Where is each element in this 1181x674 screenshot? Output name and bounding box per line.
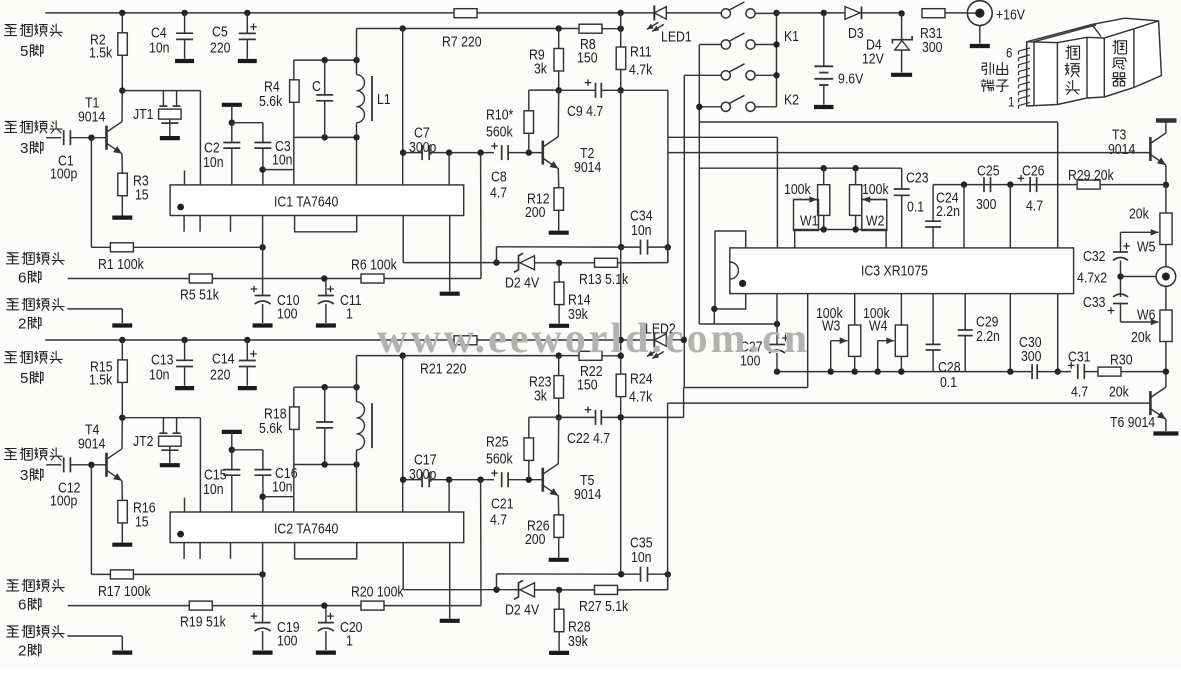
IC stub pin [183,216,185,232]
wire to IC2 pin [199,418,201,512]
wire x668 lower vertical [667,403,669,590]
wire IC3 pin1010 [1009,185,1011,248]
svg-text:W3: W3 [822,317,841,333]
wire to IC1 pin [199,91,201,185]
zener D4 12V [901,13,903,39]
svg-text:www.eeworld.com.cn: www.eeworld.com.cn [377,316,810,362]
resistor R19 51k [189,601,212,610]
svg-text:C4: C4 [151,24,167,40]
node C35 right [665,571,671,577]
svg-text:5: 5 [20,43,28,60]
svg-text:C13: C13 [151,351,174,367]
wire to tank bottom-left [263,496,294,498]
wire stub to C34 row [496,247,498,263]
svg-text:R25: R25 [486,433,509,449]
node R17/C19 [259,571,265,577]
IC stub pin top [184,498,186,512]
3D box front top edge [1027,29,1134,43]
node base/R1 [88,135,94,141]
svg-text:T6 9014: T6 9014 [1110,414,1155,430]
svg-text:10n: 10n [203,481,224,497]
wire bus to C14 [246,340,248,361]
svg-text:6: 6 [1006,44,1012,60]
svg-text:10n: 10n [631,549,652,565]
potentiometer W3 100k [854,294,856,325]
resistor R2 1.5k [118,33,128,56]
resistor R4 5.6k [290,80,300,103]
resistor R22 150 [579,351,602,360]
crystal JT2 [162,418,164,434]
wire bus to K row1 [666,12,721,14]
ground under R28 [549,651,569,655]
resistor R15 1.5k [118,360,128,383]
node C30/x1058 [1055,368,1061,374]
wire R10 top [528,90,530,111]
diode D3 [845,7,860,20]
svg-text:R7 220: R7 220 [442,33,482,49]
ground under R14 [549,324,569,328]
svg-text:5: 5 [20,370,28,387]
node row/IC3 pin964 [961,181,967,187]
wire collector up [121,91,123,122]
wire IC pin403 down [402,216,404,263]
wire R27 row to riser [618,589,668,591]
node bus/W1 [821,165,827,171]
ground pin2 [112,650,132,654]
svg-text:C28: C28 [938,359,961,375]
svg-text:4.7k: 4.7k [629,61,652,77]
wire W5 to jack [1165,245,1167,267]
wire bus to C4 [184,13,186,33]
wire T collector up [557,90,559,137]
svg-text:100: 100 [277,305,298,321]
node C27/IC3 pin [774,321,780,327]
svg-text:5.6k: 5.6k [259,93,282,109]
wire C33 to W6 wiper [1120,304,1122,323]
wire tank bottom [294,464,357,466]
inductor core bar [371,76,373,121]
svg-text:C14: C14 [212,350,235,366]
node T2 base [526,149,532,155]
node R22/x621 [618,353,624,359]
wire to C20 [325,606,327,623]
svg-text:R11: R11 [630,43,652,59]
svg-text:200: 200 [525,531,546,547]
wire W1/W2 top bus [699,167,901,169]
resistor R13 5.1k [595,258,618,267]
node bus/C27 [774,368,780,374]
label 端子 [982,80,994,92]
wire input pin3 to C12 [46,464,61,466]
wire row1 right [755,12,776,14]
resistor R24 4.7k [616,374,626,397]
ground under C5 [238,59,257,63]
resistor R18 5.6k [290,407,300,430]
capacitor C30 300 [1031,364,1033,379]
svg-text:100k: 100k [862,181,889,197]
svg-text:C33: C33 [1083,294,1106,310]
wire C7row to IC pin [448,153,450,185]
wire x403 to IC [402,356,404,512]
node bus2/W2 [852,226,858,232]
wire IC3 pin808 route [807,294,809,388]
svg-text:+16V: +16V [996,6,1026,22]
wire riser to C34 [667,247,669,262]
node R8/x621 [618,26,624,32]
node R27/R28 [556,587,562,593]
node bus/pin1010 [1007,368,1013,374]
node C32/C33 mid [1117,273,1123,279]
capacitor C28 0.1 [932,294,934,345]
wire bus to R15 [121,340,123,360]
svg-text:1: 1 [346,632,353,648]
node T2 collector [556,87,562,93]
svg-text:20k: 20k [1129,205,1149,221]
ground under R3 [112,216,132,220]
switch K2 row3 [721,71,730,80]
wire switch left rail down [698,45,700,325]
node rail/bus [773,10,779,16]
capacitor C23 0.1 [894,188,910,190]
wire jack to W6 [1165,286,1167,310]
node T6 collector [1163,368,1169,374]
ground under C19 [253,650,273,654]
node C15 top [229,447,235,453]
svg-text:560k: 560k [486,123,513,139]
label 调频头 (3D box) [1066,46,1080,60]
shield box around IC3 left end [715,231,746,309]
svg-text:2.2n: 2.2n [936,203,960,219]
svg-text:R10*: R10* [486,106,514,122]
label 至调频头 [5,449,17,460]
svg-text:R17 100k: R17 100k [98,583,151,599]
wire pin6 row [68,605,190,607]
wire bus to R2 [121,13,123,33]
wire C9 row to riser [621,89,668,91]
wire bus to C5 [246,13,248,34]
switch K2 row4 [721,102,730,111]
resistor R6 100k [361,274,384,283]
wire C34 row [497,246,622,248]
resistor R3 15 [118,173,128,196]
svg-text:IC3 XR1075: IC3 XR1075 [861,262,928,278]
svg-text:300p: 300p [409,466,437,482]
svg-text:4.7: 4.7 [1026,197,1043,213]
wiper arrow W5 [1121,231,1159,233]
capacitor C24 2.2n [932,185,934,222]
wire tank top [294,386,357,388]
svg-text:150: 150 [577,376,598,392]
svg-text:10n: 10n [203,154,224,170]
IC stub pin [230,543,232,559]
IC pin1 dot [177,204,184,211]
node C7 left [400,149,406,155]
svg-text:220: 220 [210,366,231,382]
node bus/C5 [244,10,250,16]
capacitor C15 10n [223,469,240,471]
wire y137 to IC3 pin [668,136,778,138]
wire pin6 row [68,278,190,280]
node row/IC3 pin1010 [1007,181,1013,187]
resistor R26 200 [554,515,564,538]
node R24/C22 [618,414,624,420]
wire T3 collector to rail [1165,122,1167,133]
svg-text:4.7: 4.7 [1071,383,1088,399]
node C7row/IC pin449 [446,149,452,155]
svg-text:W6: W6 [1137,306,1156,322]
wire tank to IC pin [356,465,358,513]
ground under R16 [112,543,132,547]
wire emitter down [121,481,123,501]
capacitor C tank ch2 [324,387,326,422]
node bus/C13 [181,337,187,343]
wire collector row [122,90,200,92]
IC stub pin top [184,171,186,185]
svg-text:200: 200 [525,204,546,220]
label 至调频头 [5,352,17,363]
label 至调频头 [7,299,19,310]
svg-text:D2 4V: D2 4V [505,274,540,290]
svg-text:20k: 20k [1131,329,1151,345]
op-amp IC2 TA7640 [170,512,464,543]
node T4 collector [119,415,125,421]
wire bus to LED [477,339,654,341]
ground above C2 [222,103,242,107]
wire row4 left [699,106,721,108]
node row28/R23 [556,352,562,358]
wire W bus2 staple [795,230,886,248]
node base/R17 [88,462,94,468]
wire R10 bottom [528,133,530,152]
wire tank to IC pin [356,137,358,185]
wire IC3 pin1010 to bus [1009,294,1011,372]
IC pin1 dot [177,531,184,538]
wire T emitter down [557,168,559,188]
svg-text:W4: W4 [869,317,888,333]
crystal JT1 [162,91,164,107]
wire T emitter down [557,495,559,515]
svg-text:3: 3 [20,467,28,484]
capacitor C27 100 [776,324,778,345]
resistor R1 100k [110,243,133,252]
svg-text:15: 15 [135,513,149,529]
label 调感器 (3D box) [1113,40,1127,54]
svg-text:JT1: JT1 [133,106,153,122]
resistor R8 150 [579,24,602,33]
svg-text:150: 150 [577,49,598,65]
wire IC3 pin777 top [776,137,778,248]
node row28/IC riser [400,25,406,31]
wire R6 riser [480,153,482,279]
node zener row left [493,259,499,265]
label 至调频头 [7,253,19,264]
label 至调频头 [5,121,17,132]
potentiometer W2 100k [855,168,857,185]
inductor core bar [371,403,373,448]
svg-text:1.5k: 1.5k [89,371,112,387]
svg-text:4.7: 4.7 [490,511,507,527]
op-amp IC3 XR1075 [730,248,1074,294]
IC stub pin [183,543,185,559]
capacitor C35 10n [640,567,642,582]
resistor R12 200 [554,188,564,211]
wire T3 base line [668,152,1151,154]
svg-text:2: 2 [18,643,26,660]
label 至调频头 [5,25,17,36]
node C3 bottom [259,166,265,172]
wire C35 row [497,573,622,575]
svg-text:1: 1 [346,305,353,321]
wire IC pin449 to ground [449,543,451,619]
wire D3 to D4 [860,12,902,14]
capacitor C2 10n [223,142,240,144]
wire to C3 top [232,122,263,124]
transistor T6 9014 [1149,391,1152,415]
capacitor C22 4.7 [595,410,597,425]
svg-text:4.7x2: 4.7x2 [1077,269,1107,285]
wire emitter down [121,154,123,174]
resistor R31 300 [922,9,945,18]
svg-text:9014: 9014 [78,108,106,124]
svg-text:4.7: 4.7 [490,184,507,200]
wire mid to jack [1121,276,1157,278]
wire x621 to lower bus [620,247,622,340]
svg-text:C26: C26 [1022,162,1045,178]
transistor T3 9014 [1149,137,1152,161]
switch K1 row2 [721,40,730,49]
resistor R21 220 [454,336,477,345]
capacitor C10 100 [255,295,271,297]
wire tank-top riser [356,29,358,61]
ground under C4 [175,59,194,63]
wire row28 [357,28,580,30]
svg-text:C8: C8 [491,168,507,184]
capacitor C12 100p [63,457,65,472]
IC stub pin [199,216,201,232]
node C7row/IC pin449 [446,477,452,483]
wire IC bottom staple [295,216,357,232]
resistor R9 3k [554,49,564,72]
capacitor C31 4.7 [1077,364,1079,379]
ground under R26 [549,558,569,562]
svg-text:R29 20k: R29 20k [1068,167,1114,183]
svg-text:JT2: JT2 [133,433,153,449]
ground under C14 [238,386,257,390]
svg-text:560k: 560k [486,450,513,466]
wire collector up [121,418,123,449]
capacitor C33 4.7 [1113,294,1128,297]
terminal +16V [967,1,992,26]
wire base down to R1 [90,138,92,248]
resistor R5 51k [189,274,212,283]
svg-text:C21: C21 [491,495,514,511]
node bus/R15 [119,337,125,343]
svg-text:20k: 20k [1109,383,1129,399]
svg-text:6: 6 [18,270,26,287]
capacitor C5 220 [239,32,256,34]
wire switch right rail [776,13,778,107]
node R13/R14 [556,260,562,266]
svg-text:C22 4.7: C22 4.7 [567,430,610,446]
wire IC3 bottom bus [777,371,1032,373]
node bus/battery [821,10,827,16]
capacitor C9 4.7 [595,83,597,98]
svg-text:100k: 100k [784,181,811,197]
resistor R27 5.1k [595,585,618,594]
ground under C11 [316,323,336,327]
wiper arrow W6 [1121,321,1159,323]
zener D2 4V ch2 [520,583,535,597]
svg-text:100p: 100p [50,165,78,181]
resistor R30 20k [1098,367,1121,376]
wire row3 right [755,74,776,76]
wire bus to battery [777,12,824,14]
resistor R17 100k [110,570,133,579]
ground under C10 [253,323,273,327]
node C17 left [400,477,406,483]
node C35/x621 [618,571,624,577]
wire row3 drop to lower channel [683,75,685,387]
svg-text:C23: C23 [906,169,929,185]
node T1 collector [119,87,125,93]
3D box roof valley [1092,25,1101,37]
svg-text:D2 4V: D2 4V [505,601,540,617]
svg-text:R6 100k: R6 100k [351,256,397,272]
capacitor C26 4.7 [1029,177,1031,192]
wire IC pin to C19 [262,543,264,623]
capacitor C14 220 [239,360,256,362]
svg-text:R30: R30 [1110,351,1133,367]
node C34/x621 [618,244,624,250]
ground IC pin449 [440,619,460,623]
capacitor C17 300p [421,472,423,487]
IC3 pin1 dot [739,280,746,287]
wire to D3 [824,12,845,14]
wire IC3 pin964 [963,185,965,248]
wire IC pin to C10 [262,216,264,296]
resistor R23 3k [554,376,564,399]
svg-text:1: 1 [1008,93,1014,109]
svg-text:3k: 3k [534,60,547,76]
capacitor C16 10n [254,469,271,471]
node C2 top [229,120,235,126]
wire T6 emitter down [1165,419,1167,431]
potentiometer W4 100k [900,294,902,325]
node bus/x621 [618,10,624,16]
wire LED2 to row3 drop [666,339,684,341]
svg-text:R20 100k: R20 100k [351,583,404,599]
svg-text:IC1 TA7640: IC1 TA7640 [274,193,339,209]
capacitor C21 4.7 [501,472,503,487]
wire collector row [122,417,200,419]
resistor R29 20k [1077,180,1100,189]
svg-text:3: 3 [20,140,28,157]
wire bus to row28 [620,13,622,29]
svg-text:5.6k: 5.6k [259,420,282,436]
node bus/C14 [244,337,250,343]
wire T6 collector up [1165,372,1167,388]
svg-text:10n: 10n [631,222,652,238]
wire tank-top riser [356,356,358,388]
capacitor C29 2.2n [964,294,966,330]
wire to C32 [1120,232,1122,252]
svg-text:10n: 10n [149,39,170,55]
wire IC pin403 down [402,543,404,590]
capacitor C32 4.7 [1113,251,1128,253]
node rail row3 [773,72,779,78]
wire row3 left [684,74,721,76]
potentiometer W6 20k [1160,310,1172,342]
